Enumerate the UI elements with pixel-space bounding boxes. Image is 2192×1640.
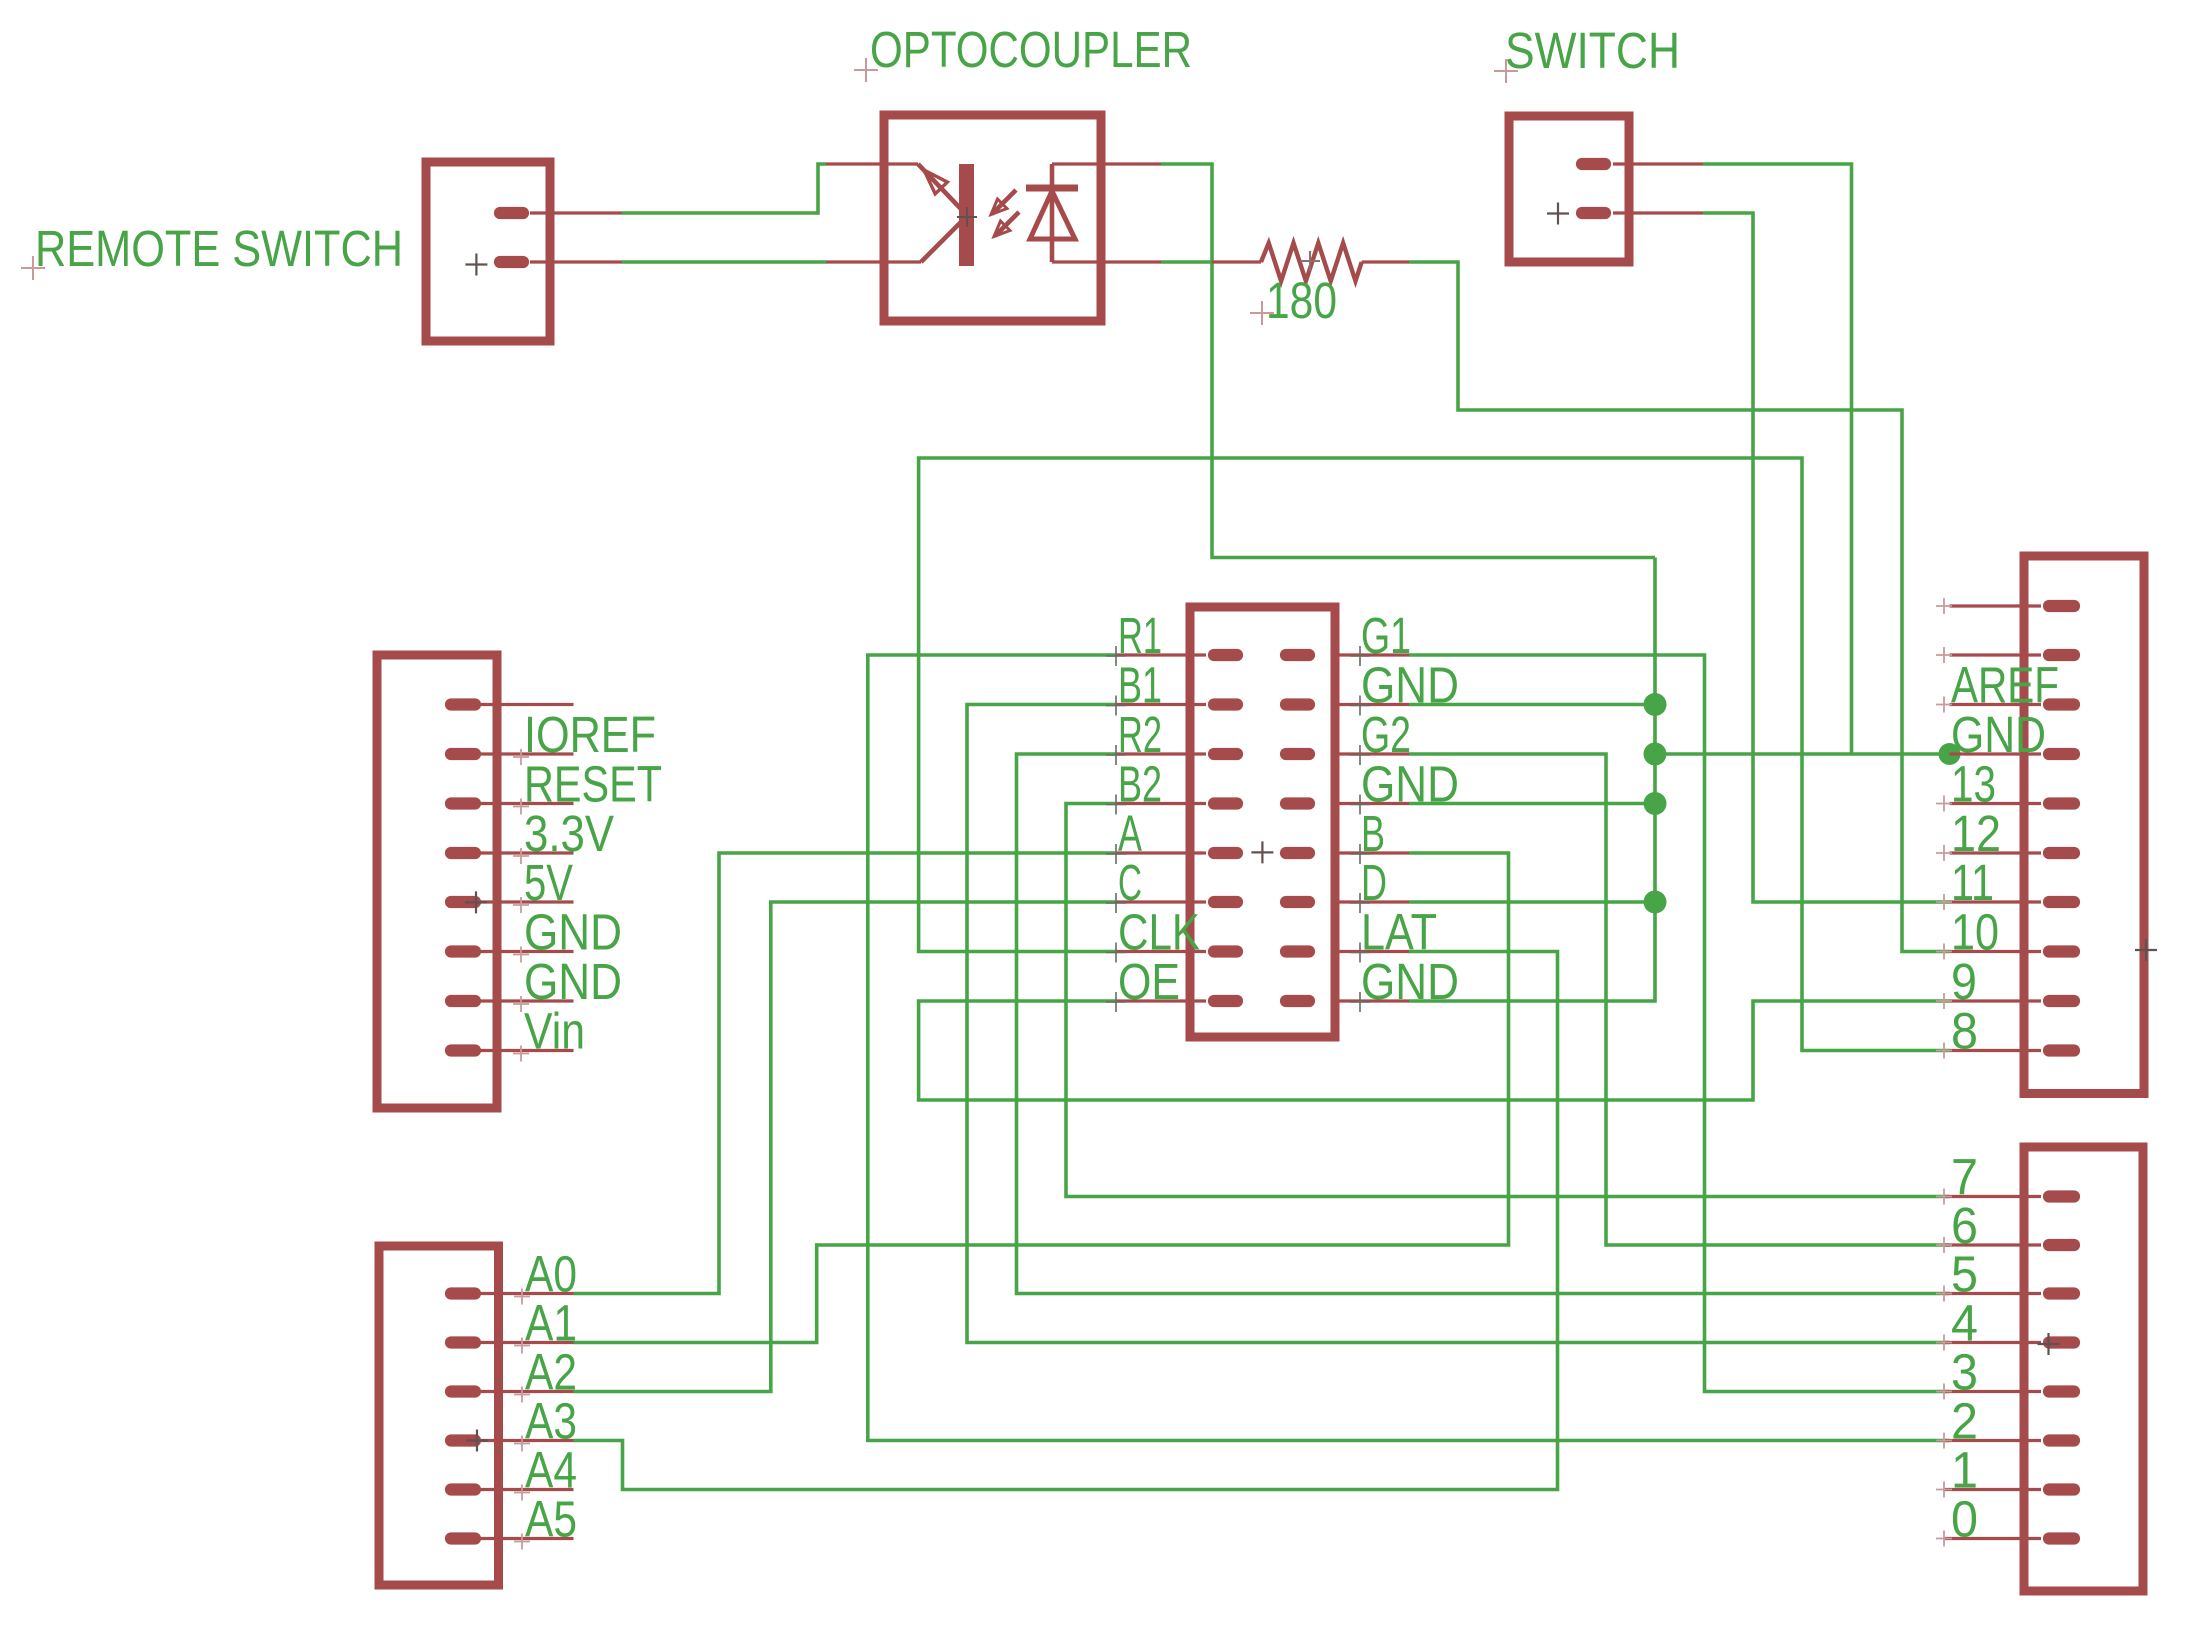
wire B2 to Arduino pin 7 <box>1066 804 1950 1197</box>
analog header pin A0 <box>451 1287 475 1299</box>
origin cross 180 text <box>1250 301 1274 325</box>
junction dot GND bus / panel GND2 <box>1644 792 1667 815</box>
text origin cross analog label <box>514 1338 530 1354</box>
digital header 0-7 pin row 8 <box>2049 1532 2074 1544</box>
panel connector right pin row 6 <box>1331 900 1409 903</box>
remote switch pin 1 <box>500 207 523 219</box>
panel connector left pin row 7 <box>1117 950 1206 953</box>
svg-text:GND: GND <box>524 904 622 961</box>
wire B1 to Arduino pin 4 <box>967 705 1950 1343</box>
text origin cross power header label <box>513 996 529 1012</box>
svg-text:RESET: RESET <box>524 756 662 813</box>
wire resistor to Arduino pin 10 <box>1409 262 1950 952</box>
text origin cross B1 <box>1106 696 1126 716</box>
pin origin cross digital header 0-7 <box>1936 1433 1952 1449</box>
wire panel GND pin 2 tap <box>1409 802 1655 806</box>
svg-text:OPTOCOUPLER: OPTOCOUPLER <box>870 21 1192 78</box>
origin cross switch part <box>1547 203 1569 225</box>
origin cross optocoupler part <box>957 207 977 227</box>
text origin cross power header label <box>513 799 529 815</box>
Arduino digital header (8-13) box <box>2024 556 2144 1094</box>
wire switch pin1 to GND bus <box>1703 164 1852 754</box>
pin origin cross digital header 0-7 <box>1936 1286 1952 1302</box>
panel connector right pin row 5 <box>1331 851 1409 854</box>
text origin cross C <box>1106 893 1126 913</box>
wire G1 to Arduino pin 3 <box>1409 655 1950 1392</box>
svg-text:REMOTE SWITCH: REMOTE SWITCH <box>35 220 403 277</box>
power header pin row 6 <box>451 945 475 957</box>
optocoupler emitter diagonal with arrow <box>918 164 961 209</box>
switch pin 1 <box>1582 158 1605 170</box>
junction dot Arduino GND pin <box>1939 743 1961 765</box>
svg-text:CLK: CLK <box>1118 904 1200 961</box>
panel connector right pin row 3 <box>1331 752 1409 755</box>
text origin cross LAT right <box>1350 943 1370 963</box>
text origin cross GND right <box>1350 795 1370 815</box>
pin origin cross digital header 0-7 <box>1936 1189 1952 1205</box>
panel connector left pin row 1 <box>1117 653 1206 656</box>
optocoupler pin line bottom-left (collector) <box>826 260 921 263</box>
pin origin cross digital header 0-7 <box>1936 1482 1952 1498</box>
panel connector left pin row 5 <box>1117 851 1206 854</box>
svg-text:8: 8 <box>1951 1003 1978 1060</box>
wire remote switch pin2 to optocoupler <box>622 260 826 264</box>
digital header 0-7 pin row 3 <box>2049 1287 2074 1299</box>
digital header 0-7 pin row 2 <box>2049 1239 2074 1251</box>
power header pin row 4 <box>451 847 475 859</box>
optocoupler pin line bottom-right <box>1052 260 1161 263</box>
wire C to Arduino A2 <box>574 902 1118 1392</box>
junction dot GND bus / Arduino GND wire <box>1644 743 1667 766</box>
svg-text:Vin: Vin <box>524 1003 585 1060</box>
pin origin cross digital header <box>1936 796 1952 812</box>
power header pin row 2 <box>451 748 475 760</box>
text origin cross GND right <box>1350 992 1370 1012</box>
origin cross REMOTE SWITCH text <box>21 256 45 280</box>
power header pin row 3 <box>451 797 475 809</box>
panel connector right pin row 8 <box>1331 999 1409 1002</box>
svg-text:11: 11 <box>1951 854 1994 911</box>
text origin cross analog label <box>514 1534 530 1550</box>
resistor R2 180 ohm <box>1212 260 1261 263</box>
svg-text:GND: GND <box>1361 756 1459 813</box>
origin cross panel connector part <box>1251 841 1273 863</box>
analog header pin A1 <box>451 1336 475 1348</box>
text origin cross power header label <box>513 1046 529 1062</box>
digital header pin row 10 <box>2049 1044 2074 1056</box>
svg-text:GND: GND <box>1361 953 1459 1010</box>
origin cross OPTOCOUPLER text <box>854 58 878 82</box>
wire A to Arduino A0 <box>574 853 1118 1294</box>
digital header 0-7 pin row 7 <box>2049 1483 2074 1495</box>
digital header pin row 8 <box>2049 945 2074 957</box>
panel connector right pin row 4 <box>1331 802 1409 805</box>
svg-text:LAT: LAT <box>1361 904 1437 961</box>
svg-text:0: 0 <box>1951 1491 1978 1548</box>
wire panel GND pin 1 tap <box>1409 703 1655 707</box>
pin origin cross digital header 0-7 <box>1936 1335 1952 1351</box>
wire panel D pin tied to GND bus <box>1409 900 1655 904</box>
power header pin row 1 <box>451 698 475 710</box>
svg-text:GND: GND <box>1361 657 1459 714</box>
wire LAT to Arduino A3 <box>574 952 1558 1490</box>
optocoupler light arrow 2 <box>995 212 1019 236</box>
origin cross power header part <box>465 891 487 913</box>
panel connector right pin row 7 <box>1331 950 1409 953</box>
svg-text:GND: GND <box>1951 706 2046 763</box>
digital header pin row 2 <box>2049 649 2074 661</box>
optocoupler LED triangle <box>1030 191 1075 239</box>
wire G2 to Arduino pin 6 <box>1409 754 1950 1245</box>
origin cross resistor part <box>1300 251 1320 271</box>
text origin cross GND right <box>1350 696 1370 716</box>
wire GND bus to Arduino GND pin <box>1655 752 1950 756</box>
digital header 0-7 pin row 4 <box>2049 1336 2074 1348</box>
text origin cross power header label <box>513 947 529 963</box>
digital header 0-7 pin row 5 <box>2049 1385 2074 1397</box>
text origin cross power header label <box>513 749 529 765</box>
wire optocoupler out bottom to resistor R1 <box>1161 260 1212 264</box>
origin cross remote switch part <box>465 254 487 276</box>
wire remote switch pin1 to optocoupler anode-side <box>622 164 826 213</box>
text origin cross CLK <box>1106 943 1126 963</box>
digital header pin row 6 <box>2049 847 2074 859</box>
svg-text:SWITCH: SWITCH <box>1505 22 1680 79</box>
16-pin panel connector box <box>1190 607 1335 1037</box>
analog header pin A4 <box>451 1483 475 1495</box>
analog header pin A3 <box>451 1434 475 1446</box>
optocoupler phototransistor base bar <box>959 164 974 266</box>
panel connector left pin row 2 <box>1117 703 1206 706</box>
connector SWITCH box <box>1509 116 1629 262</box>
pin origin cross digital header <box>1936 894 1952 910</box>
optocoupler pin line top-left (emitter) <box>826 162 918 165</box>
panel connector right pin row 1 <box>1331 653 1409 656</box>
junction dot GND bus / panel GND1 <box>1644 693 1667 716</box>
optocoupler LED vertical lead <box>1050 164 1055 262</box>
digital header pin row 7 <box>2049 896 2074 908</box>
svg-text:A5: A5 <box>525 1491 577 1548</box>
optocoupler pin line top-right <box>1052 162 1161 165</box>
svg-text:180: 180 <box>1266 272 1337 329</box>
wire CLK to Arduino pin 8 <box>919 458 1950 1051</box>
svg-text:13: 13 <box>1951 756 1996 813</box>
analog header pin A5 <box>451 1532 475 1544</box>
text origin cross analog label <box>514 1387 530 1403</box>
text origin cross R1 <box>1106 646 1126 666</box>
wire optocoupler out top to GND bus (net N$1) <box>1161 164 1655 558</box>
wire R1 to Arduino pin 2 <box>868 655 1950 1441</box>
pin origin cross digital header 0-7 <box>1936 1531 1952 1547</box>
text origin cross OE <box>1106 992 1126 1012</box>
optocoupler light arrow 1 <box>992 190 1016 214</box>
wire B to Arduino A1 <box>574 853 1509 1343</box>
text origin cross analog label <box>514 1289 530 1305</box>
svg-text:IOREF: IOREF <box>524 706 656 763</box>
pin origin cross digital header <box>1936 598 1952 614</box>
svg-text:OE: OE <box>1118 953 1180 1010</box>
power header pin row 7 <box>451 995 475 1007</box>
text origin cross B right <box>1350 844 1370 864</box>
power header pin row 5 <box>451 896 475 908</box>
pin origin cross digital header 0-7 <box>1936 1384 1952 1400</box>
text origin cross R2 <box>1106 745 1126 765</box>
pin origin cross digital header <box>1936 697 1952 713</box>
text origin cross B2 <box>1106 795 1126 815</box>
panel connector left pin row 8 <box>1117 999 1206 1002</box>
digital header 0-7 pin row 6 <box>2049 1434 2074 1446</box>
digital header pin row 1 <box>2049 600 2074 612</box>
text origin cross D right <box>1350 893 1370 913</box>
svg-text:10: 10 <box>1951 904 1999 961</box>
text origin cross G2 right <box>1350 745 1370 765</box>
switch pin 2 <box>1582 207 1605 219</box>
wire GND bus vertical with taps <box>1409 558 1655 1002</box>
power header pin row 8 <box>451 1044 475 1056</box>
text origin cross analog label <box>514 1436 530 1452</box>
Arduino power header box <box>377 655 497 1108</box>
svg-text:5V: 5V <box>524 854 573 911</box>
panel connector right pin row 2 <box>1331 703 1409 706</box>
origin cross digital header part <box>2135 939 2157 961</box>
origin cross SWITCH text <box>1494 59 1518 83</box>
svg-text:9: 9 <box>1951 953 1977 1010</box>
wire switch pin2 to Arduino pin 11 <box>1703 213 1950 902</box>
text origin cross analog label <box>514 1485 530 1501</box>
pin origin cross digital header <box>1936 647 1952 663</box>
optocoupler collector diagonal <box>921 222 961 262</box>
pin origin cross digital header <box>1936 944 1952 960</box>
origin cross digital header 0-7 part <box>2038 1333 2060 1355</box>
pin origin cross digital header 0-7 <box>1936 1237 1952 1253</box>
optocoupler LED cathode bar <box>1026 185 1078 192</box>
wire OE to Arduino pin 9 <box>919 1001 1950 1100</box>
analog header pin A2 <box>451 1385 475 1397</box>
junction dot GND bus / panel D <box>1644 891 1667 914</box>
text origin cross A <box>1106 844 1126 864</box>
pin origin cross digital header <box>1936 993 1952 1009</box>
Arduino digital header (0-7) box <box>2024 1147 2143 1591</box>
digital header pin row 5 <box>2049 797 2074 809</box>
digital header pin row 9 <box>2049 995 2074 1007</box>
digital header 0-7 pin row 1 <box>2049 1190 2074 1202</box>
wire R2 to Arduino pin 5 <box>1017 754 1950 1294</box>
connector REMOTE SWITCH box <box>426 162 550 341</box>
digital header pin row 4 <box>2049 748 2074 760</box>
remote switch pin 2 <box>500 256 523 268</box>
optocoupler OK1 box <box>884 115 1101 321</box>
pin origin cross digital header <box>1936 845 1952 861</box>
pin origin cross digital header <box>1936 1043 1952 1059</box>
text origin cross G1 right <box>1350 646 1370 666</box>
panel connector left pin row 6 <box>1117 900 1206 903</box>
text origin cross power header label <box>513 897 529 913</box>
Arduino analog header box <box>379 1246 499 1585</box>
svg-text:GND: GND <box>524 953 622 1010</box>
digital header pin row 3 <box>2049 698 2074 710</box>
text origin cross power header label <box>513 848 529 864</box>
origin cross analog header part <box>466 1430 488 1452</box>
svg-text:AREF: AREF <box>1951 657 2059 714</box>
panel connector left pin row 3 <box>1117 752 1206 755</box>
panel connector left pin row 4 <box>1117 802 1206 805</box>
